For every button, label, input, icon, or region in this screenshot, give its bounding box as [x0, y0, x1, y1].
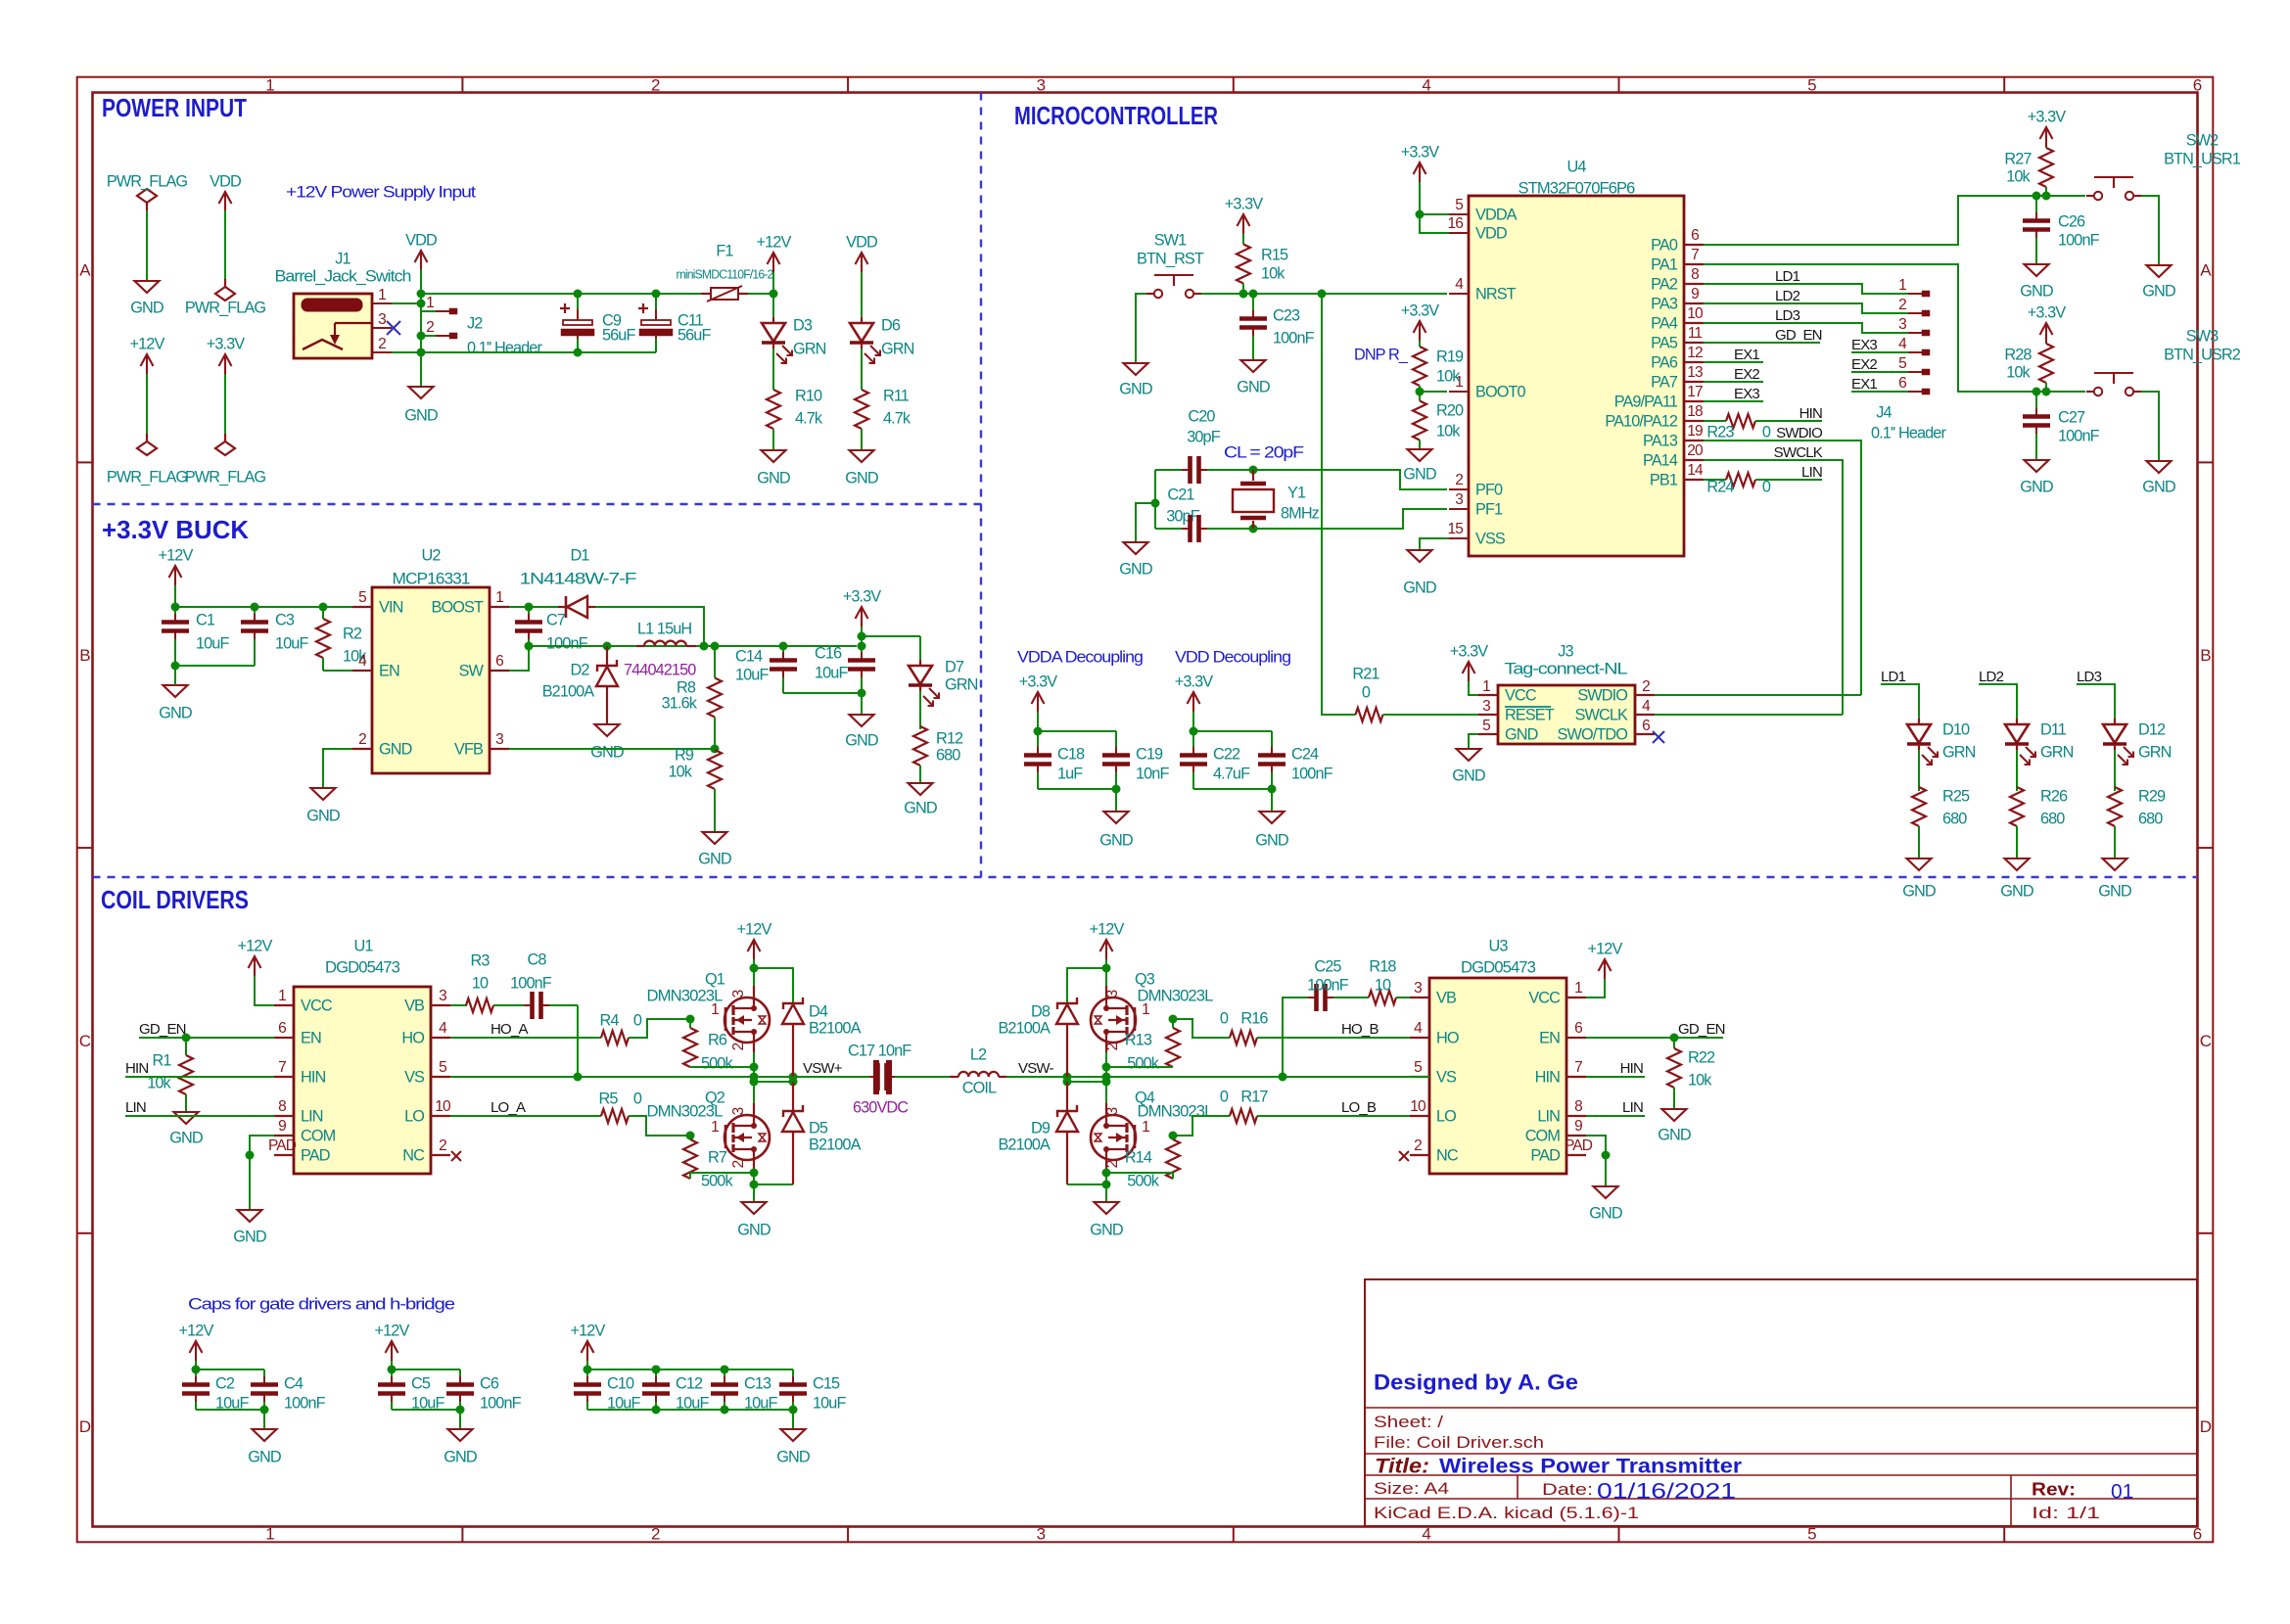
- svg-text:1: 1: [1898, 277, 1906, 294]
- svg-text:10: 10: [472, 974, 489, 992]
- svg-text:+12V Power Supply Input: +12V Power Supply Input: [286, 183, 477, 201]
- svg-text:SW: SW: [459, 662, 485, 679]
- svg-text:2: 2: [358, 731, 366, 748]
- svg-text:30pF: 30pF: [1187, 428, 1220, 445]
- svg-text:10uF: 10uF: [744, 1394, 777, 1412]
- svg-text:C25: C25: [1314, 957, 1341, 975]
- svg-text:GND: GND: [845, 731, 878, 749]
- svg-text:STM32F070F6P6: STM32F070F6P6: [1519, 179, 1636, 197]
- svg-text:01/16/2021: 01/16/2021: [1597, 1479, 1736, 1504]
- svg-text:C27: C27: [2058, 408, 2085, 426]
- svg-text:D6: D6: [881, 316, 901, 334]
- svg-text:R16: R16: [1240, 1009, 1268, 1027]
- svg-text:GD_EN: GD_EN: [139, 1021, 186, 1038]
- svg-text:100nF: 100nF: [510, 974, 552, 992]
- svg-text:6: 6: [1898, 375, 1906, 392]
- svg-text:Size: A4: Size: A4: [1374, 1479, 1449, 1498]
- svg-text:PA5: PA5: [1651, 334, 1678, 351]
- svg-text:+3.3V: +3.3V: [1225, 195, 1264, 212]
- svg-text:GND: GND: [306, 807, 340, 824]
- svg-text:1uF: 1uF: [1057, 765, 1083, 782]
- svg-text:15: 15: [1448, 521, 1464, 537]
- svg-text:C19: C19: [1136, 745, 1163, 763]
- svg-text:GRN: GRN: [881, 340, 914, 357]
- svg-text:SW2: SW2: [2186, 131, 2219, 149]
- svg-text:DMN3023L: DMN3023L: [647, 1102, 724, 1120]
- svg-text:5: 5: [1455, 197, 1463, 213]
- svg-text:GRN: GRN: [793, 340, 826, 357]
- svg-text:D1: D1: [570, 546, 589, 564]
- svg-text:R17: R17: [1240, 1088, 1268, 1105]
- svg-text:5: 5: [1807, 75, 1816, 94]
- svg-text:LIN: LIN: [301, 1107, 323, 1125]
- svg-text:D7: D7: [945, 658, 964, 675]
- svg-text:EX3: EX3: [1734, 386, 1759, 402]
- svg-text:L1 15uH: L1 15uH: [637, 620, 691, 637]
- svg-text:R29: R29: [2138, 787, 2166, 805]
- svg-text:VCC: VCC: [1505, 686, 1537, 704]
- svg-text:PAD: PAD: [1530, 1146, 1560, 1164]
- svg-text:C22: C22: [1213, 745, 1240, 763]
- svg-text:GND: GND: [757, 469, 790, 487]
- svg-text:GND: GND: [904, 799, 937, 816]
- svg-text:R3: R3: [470, 951, 490, 969]
- svg-text:Id: 1/1: Id: 1/1: [2032, 1504, 2100, 1522]
- svg-text:0: 0: [1762, 478, 1771, 495]
- svg-text:GND: GND: [2142, 478, 2175, 495]
- svg-text:+3.3V: +3.3V: [2028, 108, 2067, 125]
- svg-text:3: 3: [1898, 316, 1906, 333]
- svg-text:C10: C10: [607, 1374, 634, 1392]
- svg-text:B: B: [79, 646, 90, 665]
- svg-text:5: 5: [1807, 1524, 1816, 1543]
- svg-text:+12V: +12V: [159, 546, 194, 564]
- svg-text:LO: LO: [404, 1107, 424, 1125]
- svg-text:LD2: LD2: [1979, 669, 2004, 685]
- svg-text:C23: C23: [1273, 306, 1300, 324]
- svg-text:R10: R10: [795, 387, 822, 404]
- svg-text:GND: GND: [737, 1221, 771, 1238]
- svg-text:Tag-connect-NL: Tag-connect-NL: [1505, 660, 1628, 677]
- svg-text:3: 3: [730, 990, 747, 998]
- svg-text:VDDA: VDDA: [1475, 206, 1518, 223]
- svg-text:100nF: 100nF: [1273, 329, 1315, 347]
- svg-text:HO_B: HO_B: [1341, 1021, 1379, 1038]
- svg-text:+3.3V: +3.3V: [1019, 673, 1058, 690]
- svg-text:4: 4: [1414, 1020, 1423, 1037]
- svg-text:C13: C13: [744, 1374, 771, 1392]
- svg-text:COM: COM: [301, 1127, 336, 1144]
- svg-text:Y1: Y1: [1287, 484, 1306, 501]
- svg-text:J2: J2: [467, 314, 483, 332]
- svg-text:10: 10: [435, 1098, 451, 1115]
- svg-text:1: 1: [1482, 678, 1490, 695]
- svg-text:J3: J3: [1558, 642, 1573, 660]
- svg-text:GRN: GRN: [2138, 743, 2172, 761]
- svg-text:5: 5: [1414, 1059, 1422, 1076]
- svg-text:GND: GND: [1505, 725, 1538, 743]
- svg-text:GND: GND: [1255, 831, 1288, 849]
- svg-text:R26: R26: [2040, 787, 2068, 805]
- svg-text:D: D: [79, 1417, 91, 1436]
- svg-text:500k: 500k: [701, 1172, 733, 1189]
- svg-text:3: 3: [378, 311, 386, 328]
- svg-text:Q3: Q3: [1135, 970, 1155, 988]
- svg-text:Designed by A. Ge: Designed by A. Ge: [1374, 1370, 1578, 1395]
- svg-text:4: 4: [1455, 276, 1464, 293]
- svg-text:RESET: RESET: [1505, 706, 1555, 723]
- svg-text:0: 0: [633, 1090, 642, 1107]
- svg-text:6: 6: [1574, 1020, 1582, 1037]
- svg-text:1: 1: [1574, 980, 1582, 997]
- svg-text:LD3: LD3: [2077, 669, 2102, 685]
- svg-text:GND: GND: [1119, 560, 1152, 578]
- svg-text:744042150: 744042150: [624, 661, 696, 678]
- svg-text:GRN: GRN: [1942, 743, 1976, 761]
- svg-text:C1: C1: [196, 611, 215, 628]
- svg-text:2: 2: [439, 1137, 446, 1154]
- svg-text:C8: C8: [527, 951, 546, 968]
- svg-text:3: 3: [439, 988, 446, 1004]
- svg-text:File: Coil Driver.sch: File: Coil Driver.sch: [1374, 1433, 1544, 1452]
- svg-text:C2: C2: [215, 1374, 235, 1392]
- svg-text:10: 10: [1410, 1098, 1426, 1115]
- svg-text:8: 8: [278, 1098, 286, 1115]
- svg-text:VSS: VSS: [1475, 530, 1506, 547]
- svg-text:CL = 20pF: CL = 20pF: [1224, 443, 1304, 461]
- svg-text:500k: 500k: [701, 1054, 733, 1072]
- svg-text:LIN: LIN: [1537, 1107, 1560, 1125]
- svg-text:HIN: HIN: [1799, 405, 1822, 422]
- svg-text:56uF: 56uF: [678, 326, 711, 344]
- svg-text:GND: GND: [2020, 282, 2053, 300]
- svg-text:C16: C16: [815, 644, 842, 662]
- svg-text:10uF: 10uF: [815, 664, 848, 681]
- svg-text:PA14: PA14: [1643, 451, 1678, 469]
- svg-text:VDD: VDD: [846, 233, 877, 251]
- svg-text:A: A: [2200, 261, 2212, 280]
- svg-text:B2100A: B2100A: [998, 1019, 1051, 1037]
- svg-text:R27: R27: [2004, 150, 2032, 167]
- svg-text:R5: R5: [598, 1090, 618, 1107]
- svg-text:680: 680: [2040, 810, 2065, 827]
- svg-text:10uF: 10uF: [215, 1394, 249, 1412]
- svg-text:PWR_FLAG: PWR_FLAG: [107, 172, 188, 190]
- svg-text:10k: 10k: [1688, 1071, 1712, 1089]
- svg-text:PA2: PA2: [1651, 275, 1678, 293]
- svg-text:MICROCONTROLLER: MICROCONTROLLER: [1014, 101, 1218, 130]
- svg-text:PWR_FLAG: PWR_FLAG: [185, 468, 266, 486]
- svg-text:10k: 10k: [2006, 363, 2031, 381]
- svg-text:Rev:: Rev:: [2032, 1479, 2076, 1499]
- svg-text:10uF: 10uF: [813, 1394, 846, 1412]
- svg-text:R20: R20: [1436, 401, 1464, 419]
- svg-text:2: 2: [730, 1043, 747, 1051]
- svg-text:+3.3V: +3.3V: [207, 335, 246, 352]
- svg-text:0: 0: [1762, 423, 1771, 441]
- svg-text:+12V: +12V: [571, 1322, 606, 1339]
- svg-text:C17 10nF: C17 10nF: [848, 1042, 911, 1059]
- svg-text:+12V: +12V: [757, 233, 792, 251]
- svg-text:100nF: 100nF: [2058, 427, 2100, 444]
- svg-text:30pF: 30pF: [1166, 507, 1199, 525]
- svg-text:B2100A: B2100A: [809, 1019, 862, 1037]
- svg-text:GND: GND: [130, 299, 164, 316]
- svg-text:11: 11: [1688, 325, 1703, 342]
- svg-text:R13: R13: [1125, 1031, 1152, 1048]
- svg-text:+12V: +12V: [238, 937, 273, 954]
- svg-text:1: 1: [711, 1001, 719, 1018]
- svg-text:EN: EN: [379, 662, 399, 679]
- svg-text:B: B: [2200, 646, 2211, 665]
- svg-text:+12V: +12V: [1588, 940, 1623, 957]
- svg-text:2: 2: [1455, 472, 1463, 488]
- svg-text:4: 4: [358, 653, 367, 670]
- svg-text:LD3: LD3: [1775, 307, 1800, 324]
- svg-text:GND: GND: [1658, 1126, 1691, 1143]
- svg-text:0: 0: [1220, 1088, 1229, 1105]
- svg-text:GND: GND: [845, 469, 878, 487]
- svg-text:Date:: Date:: [1542, 1480, 1593, 1499]
- svg-text:LO: LO: [1436, 1107, 1456, 1125]
- svg-text:COIL DRIVERS: COIL DRIVERS: [101, 885, 249, 914]
- svg-text:D11: D11: [2040, 720, 2067, 738]
- svg-text:COIL: COIL: [962, 1079, 997, 1096]
- svg-text:1: 1: [1142, 1119, 1149, 1136]
- svg-text:PA13: PA13: [1643, 432, 1678, 449]
- svg-text:680: 680: [936, 746, 960, 764]
- svg-text:BOOT0: BOOT0: [1475, 383, 1526, 400]
- svg-text:C5: C5: [411, 1374, 431, 1392]
- svg-text:C4: C4: [284, 1374, 304, 1392]
- svg-text:B2100A: B2100A: [809, 1136, 862, 1153]
- svg-text:+12V: +12V: [179, 1322, 214, 1339]
- svg-text:KiCad E.D.A. kicad (5.1.6)-1: KiCad E.D.A. kicad (5.1.6)-1: [1374, 1504, 1639, 1522]
- svg-text:100nF: 100nF: [480, 1394, 522, 1412]
- svg-text:VDD: VDD: [210, 172, 241, 190]
- svg-text:R24: R24: [1706, 478, 1734, 495]
- svg-text:5: 5: [1898, 355, 1906, 372]
- svg-text:LD2: LD2: [1775, 288, 1800, 304]
- svg-text:0: 0: [1220, 1009, 1229, 1027]
- svg-text:C14: C14: [735, 647, 763, 665]
- svg-text:GND: GND: [2020, 478, 2053, 495]
- svg-text:R7: R7: [708, 1148, 727, 1166]
- svg-text:HO_A: HO_A: [491, 1021, 528, 1038]
- svg-text:R14: R14: [1125, 1148, 1152, 1166]
- svg-text:4.7k: 4.7k: [795, 409, 823, 427]
- svg-text:D5: D5: [809, 1119, 828, 1137]
- svg-text:PB1: PB1: [1650, 471, 1678, 488]
- svg-text:HO: HO: [1436, 1029, 1459, 1046]
- svg-text:+12V: +12V: [1090, 920, 1125, 938]
- svg-text:D10: D10: [1942, 720, 1970, 738]
- svg-text:R25: R25: [1942, 787, 1970, 805]
- svg-text:Wireless Power Transmitter: Wireless Power Transmitter: [1439, 1455, 1742, 1477]
- svg-text:SWCLK: SWCLK: [1774, 444, 1823, 461]
- svg-text:SWCLK: SWCLK: [1575, 706, 1628, 723]
- svg-text:1: 1: [1142, 1001, 1149, 1018]
- svg-text:U1: U1: [353, 937, 373, 954]
- svg-text:R18: R18: [1369, 957, 1396, 975]
- svg-text:100nF: 100nF: [284, 1394, 326, 1412]
- svg-text:GND: GND: [1090, 1221, 1123, 1238]
- svg-text:3: 3: [730, 1107, 747, 1116]
- svg-text:0: 0: [1362, 683, 1371, 701]
- svg-text:PAD: PAD: [268, 1137, 297, 1154]
- svg-text:HIN: HIN: [125, 1060, 148, 1077]
- svg-text:D12: D12: [2138, 720, 2166, 738]
- svg-text:6: 6: [1642, 718, 1650, 734]
- svg-text:LD1: LD1: [1881, 669, 1906, 685]
- svg-text:VS: VS: [1436, 1068, 1457, 1086]
- svg-text:PA6: PA6: [1651, 353, 1678, 371]
- svg-text:DGD05473: DGD05473: [1461, 958, 1536, 976]
- svg-text:10uF: 10uF: [196, 634, 229, 652]
- svg-text:PA0: PA0: [1651, 236, 1678, 254]
- svg-text:U4: U4: [1566, 158, 1586, 175]
- svg-text:+12V: +12V: [130, 335, 165, 352]
- svg-text:8: 8: [1574, 1098, 1582, 1115]
- svg-text:9: 9: [278, 1118, 286, 1135]
- svg-text:LIN: LIN: [1622, 1099, 1643, 1116]
- svg-text:+3.3V: +3.3V: [843, 587, 882, 605]
- svg-text:VDD Decoupling: VDD Decoupling: [1175, 648, 1290, 666]
- svg-text:GRN: GRN: [945, 675, 978, 693]
- svg-text:R2: R2: [343, 625, 362, 642]
- svg-text:+12V: +12V: [737, 920, 772, 938]
- svg-text:DGD05473: DGD05473: [325, 958, 400, 976]
- svg-text:R11: R11: [883, 387, 910, 404]
- svg-text:4: 4: [1422, 1524, 1430, 1543]
- svg-text:U3: U3: [1488, 937, 1508, 954]
- svg-text:4: 4: [439, 1020, 447, 1037]
- svg-text:2: 2: [651, 1524, 660, 1543]
- svg-text:C7: C7: [546, 611, 566, 628]
- svg-text:Barrel_Jack_Switch: Barrel_Jack_Switch: [275, 267, 411, 285]
- svg-text:C26: C26: [2058, 212, 2085, 230]
- svg-text:D: D: [2200, 1417, 2212, 1436]
- svg-text:4: 4: [1898, 336, 1907, 352]
- svg-text:EX2: EX2: [1734, 366, 1759, 383]
- svg-text:4.7k: 4.7k: [883, 409, 911, 427]
- svg-text:U2: U2: [421, 546, 441, 564]
- svg-text:Title:: Title:: [1375, 1455, 1429, 1477]
- svg-text:VFB: VFB: [454, 740, 483, 758]
- svg-text:2: 2: [426, 319, 434, 336]
- svg-text:100nF: 100nF: [1291, 765, 1333, 782]
- svg-text:10uF: 10uF: [735, 666, 769, 683]
- svg-text:LIN: LIN: [1801, 464, 1822, 481]
- svg-text:VDDA Decoupling: VDDA Decoupling: [1017, 648, 1143, 666]
- svg-text:GND: GND: [1452, 766, 1485, 784]
- svg-text:R4: R4: [599, 1011, 619, 1029]
- svg-text:100nF: 100nF: [2058, 231, 2100, 249]
- svg-text:+3.3V: +3.3V: [1450, 642, 1489, 660]
- svg-text:VDD: VDD: [405, 231, 437, 249]
- svg-text:BTN_USR1: BTN_USR1: [2164, 150, 2241, 167]
- svg-text:C6: C6: [480, 1374, 499, 1392]
- svg-text:SW1: SW1: [1154, 231, 1187, 249]
- svg-text:D4: D4: [809, 1002, 828, 1020]
- svg-text:miniSMDC110F/16-2: miniSMDC110F/16-2: [677, 267, 774, 282]
- svg-text:GND: GND: [1403, 579, 1436, 596]
- svg-text:PA7: PA7: [1651, 373, 1678, 391]
- svg-text:10: 10: [1375, 976, 1391, 994]
- svg-text:6: 6: [1691, 227, 1699, 244]
- svg-text:GND: GND: [233, 1228, 266, 1245]
- svg-text:F1: F1: [716, 242, 733, 259]
- svg-text:680: 680: [2138, 810, 2163, 827]
- svg-text:0.1'' Header: 0.1'' Header: [1871, 424, 1946, 441]
- svg-text:GND: GND: [1403, 465, 1436, 483]
- svg-text:VS: VS: [404, 1068, 425, 1086]
- svg-text:PA3: PA3: [1651, 295, 1678, 312]
- svg-text:SW3: SW3: [2186, 327, 2219, 345]
- svg-text:16: 16: [1448, 215, 1464, 232]
- svg-text:GND: GND: [2098, 882, 2131, 900]
- svg-text:8: 8: [1691, 266, 1699, 283]
- svg-text:3: 3: [1104, 990, 1121, 998]
- svg-text:R12: R12: [936, 729, 963, 747]
- svg-text:6: 6: [2193, 75, 2202, 94]
- svg-text:EX1: EX1: [1851, 376, 1877, 393]
- svg-text:R23: R23: [1706, 423, 1734, 441]
- svg-text:18: 18: [1687, 403, 1703, 420]
- svg-text:2: 2: [1898, 297, 1906, 313]
- svg-text:14: 14: [1687, 462, 1704, 479]
- svg-text:GND: GND: [379, 740, 412, 758]
- svg-text:A: A: [79, 261, 91, 280]
- svg-text:6: 6: [495, 653, 503, 670]
- svg-text:EN: EN: [1539, 1029, 1560, 1046]
- svg-text:B2100A: B2100A: [998, 1136, 1051, 1153]
- svg-text:10uF: 10uF: [676, 1394, 709, 1412]
- svg-text:HO: HO: [401, 1029, 424, 1046]
- svg-text:R21: R21: [1352, 665, 1379, 682]
- svg-text:LO_A: LO_A: [491, 1099, 526, 1116]
- svg-text:7: 7: [1691, 247, 1699, 263]
- svg-text:C: C: [2200, 1032, 2212, 1050]
- svg-text:D8: D8: [1031, 1002, 1051, 1020]
- svg-text:C: C: [79, 1032, 91, 1050]
- svg-text:SWDIO: SWDIO: [1577, 686, 1627, 704]
- svg-text:PA4: PA4: [1651, 314, 1678, 332]
- svg-text:PF1: PF1: [1475, 500, 1503, 518]
- svg-text:PAD: PAD: [301, 1146, 330, 1164]
- svg-text:9: 9: [1691, 286, 1699, 302]
- svg-text:10uF: 10uF: [607, 1394, 640, 1412]
- svg-text:B2100A: B2100A: [542, 682, 595, 700]
- svg-text:R9: R9: [675, 746, 694, 764]
- svg-text:+12V: +12V: [375, 1322, 410, 1339]
- svg-text:3: 3: [1414, 980, 1422, 997]
- svg-text:LIN: LIN: [125, 1099, 146, 1116]
- svg-text:10k: 10k: [1436, 422, 1461, 440]
- svg-text:1: 1: [711, 1119, 719, 1136]
- svg-text:Caps for gate drivers and h-br: Caps for gate drivers and h-bridge: [188, 1295, 455, 1313]
- svg-text:PWR_FLAG: PWR_FLAG: [107, 468, 188, 486]
- svg-text:3: 3: [1455, 491, 1463, 508]
- svg-text:7: 7: [1574, 1059, 1582, 1076]
- svg-text:+3.3V: +3.3V: [1401, 302, 1440, 319]
- svg-text:GND: GND: [169, 1129, 203, 1146]
- svg-text:4.7uF: 4.7uF: [1213, 765, 1250, 782]
- svg-text:3: 3: [1037, 75, 1046, 94]
- svg-text:PAD: PAD: [1565, 1137, 1593, 1154]
- svg-text:Sheet: /: Sheet: /: [1374, 1413, 1443, 1431]
- svg-text:6: 6: [278, 1020, 286, 1037]
